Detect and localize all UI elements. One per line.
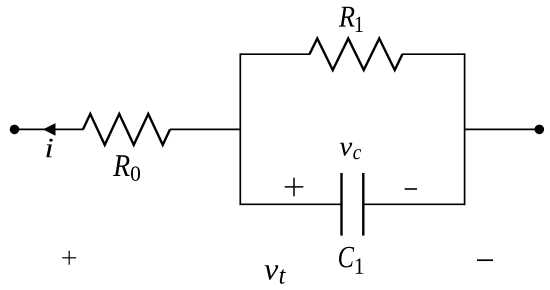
wire: bottom right segment — [363, 203, 465, 205]
resistor R0 — [83, 114, 170, 145]
label C1 — [339, 247, 363, 274]
right terminal node — [535, 125, 545, 135]
wire: top right segment — [402, 53, 465, 55]
label i — [46, 139, 53, 158]
wire: top left segment — [240, 53, 311, 55]
wire: box right to right terminal — [465, 128, 539, 130]
label v_c — [340, 143, 361, 160]
wire: left terminal to resistor R0 — [15, 128, 84, 130]
plus sign (capacitor polarity) — [285, 178, 304, 197]
wire: R0 to box left — [170, 128, 241, 130]
minus sign (capacitor polarity) — [405, 188, 417, 190]
minus sign (terminal polarity, bottom right) — [477, 259, 493, 261]
plus sign (terminal polarity, bottom left) — [62, 251, 76, 265]
label R0 — [113, 155, 140, 181]
wire: box left vertical — [239, 53, 241, 205]
wire: box right vertical — [464, 53, 466, 205]
label v_t — [265, 265, 286, 284]
resistor R1 — [310, 39, 403, 71]
capacitor C1 left plate — [340, 173, 342, 236]
current arrow (pointing left) — [43, 123, 56, 136]
wire: bottom left segment — [240, 203, 342, 205]
capacitor C1 right plate — [362, 173, 364, 236]
label R1 — [339, 7, 363, 32]
left terminal node — [10, 125, 20, 135]
